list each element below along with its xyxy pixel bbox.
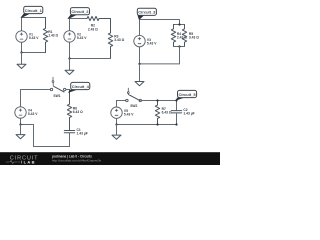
capacitor C1 (64, 128, 87, 136)
wire left C3 (139, 20, 141, 64)
svg-text:Circuit_2: Circuit_2 (71, 9, 89, 14)
resistor R2 (87, 16, 111, 31)
node C3 top (178, 23, 180, 25)
label Circuit_1 (21, 6, 43, 17)
ground C1 (17, 53, 26, 69)
wire top-left C5 (117, 100, 126, 102)
node C5 left (115, 123, 117, 125)
switch SW1 (50, 77, 66, 98)
ground C3 (135, 64, 144, 86)
svg-text:3.43 Ω: 3.43 Ω (114, 38, 124, 42)
bar bottom R4R5 (174, 46, 185, 48)
ground C4 (16, 125, 25, 139)
ground C5 (112, 125, 121, 140)
wire right C3 (179, 47, 181, 64)
wire top C3 (140, 20, 180, 25)
wire left C5 (116, 101, 118, 125)
svg-text:1.43 µF: 1.43 µF (77, 132, 88, 136)
svg-text:Circuit_5: Circuit_5 (178, 92, 196, 97)
footer bar (0, 152, 220, 165)
svg-text:1.43 µF: 1.43 µF (183, 112, 194, 116)
node C3 bottom (138, 63, 140, 65)
svg-text:http://circuitlab.com/c64kc42n: http://circuitlab.com/c64kc42nqmw3e (52, 158, 102, 162)
node C3 mid (178, 45, 180, 47)
wire below C1 (69, 133, 71, 147)
svg-text:6.43 Ω: 6.43 Ω (73, 110, 83, 114)
node C2 bottom (175, 123, 177, 125)
resistor R3 (108, 19, 124, 59)
wire SW1 to corner (66, 89, 70, 91)
svg-text:5.43 V: 5.43 V (29, 36, 39, 40)
svg-text:6.43 Ω: 6.43 Ω (162, 110, 172, 114)
svg-text:LAB: LAB (24, 160, 36, 165)
svg-text:5.43 V: 5.43 V (147, 41, 157, 45)
voltage source V2 (64, 31, 87, 42)
wire C2 bottom stub (176, 113, 178, 125)
svg-text:1.43 Ω: 1.43 Ω (48, 34, 58, 38)
ground C2 (65, 59, 74, 75)
node C2 top (175, 99, 177, 101)
wire bottom staircase C4 (21, 125, 70, 147)
voltage source V3 (134, 35, 157, 46)
svg-text:2.43 Ω: 2.43 Ω (88, 27, 98, 31)
wire C2 top stub (176, 101, 178, 111)
svg-text:3.43 Ω: 3.43 Ω (189, 36, 199, 40)
voltage source V1 (16, 31, 39, 42)
svg-text:Circuit_1: Circuit_1 (25, 8, 43, 13)
node C4 (19, 123, 21, 125)
wire top C4 (21, 89, 51, 91)
wire bottom C5 (117, 124, 177, 126)
switch SW2 (126, 88, 142, 108)
label Circuit_4 (69, 82, 90, 92)
label Circuit_2 (68, 8, 90, 19)
wire bottom C2 (70, 58, 111, 60)
svg-text:podmana | Lab 0 - Circuits: podmana | Lab 0 - Circuits (52, 154, 92, 158)
svg-text:5.43 V: 5.43 V (28, 112, 38, 116)
node R7 bottom (156, 123, 158, 125)
wire top-right C5 (142, 100, 177, 102)
svg-text:5.43 V: 5.43 V (124, 113, 134, 117)
svg-text:Circuit_4: Circuit_4 (72, 84, 90, 89)
svg-text:SW2: SW2 (130, 104, 137, 108)
resistor R7 (155, 101, 172, 125)
svg-text:Circuit_3: Circuit_3 (138, 10, 156, 15)
node C1 bottom (20, 51, 22, 53)
resistor R4 (171, 25, 187, 47)
wire bottom C3 (140, 63, 180, 65)
resistor R5 (182, 25, 199, 47)
node R7 top (156, 99, 158, 101)
node C2 bottom (68, 57, 70, 59)
wire left C4 (20, 90, 22, 125)
wire left C2 (69, 19, 71, 59)
wire top C1 (22, 17, 46, 19)
wire top-left C2 (70, 18, 88, 20)
label Circuit_3 (137, 8, 156, 19)
resistor R6 (67, 90, 83, 131)
label Circuit_5 (176, 90, 197, 100)
wire left C1 (21, 18, 23, 53)
capacitor C2 (171, 108, 194, 116)
wire bottom C1 (22, 52, 46, 54)
voltage source V4 (15, 107, 38, 118)
svg-text:SW1: SW1 (53, 94, 60, 98)
resistor R1 (43, 18, 58, 53)
bar top R4R5 (174, 24, 185, 26)
voltage source V5 (111, 107, 134, 118)
svg-text:5.43 V: 5.43 V (77, 36, 87, 40)
